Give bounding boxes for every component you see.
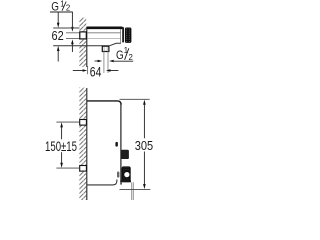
valve body right end ring <box>122 27 124 42</box>
knob unit foot <box>120 180 131 182</box>
inlet pipe lower callout arrow (up arrow) <box>71 39 74 52</box>
knob knurl texture <box>124 167 128 181</box>
control paddle block <box>121 150 129 159</box>
dimension 305: top extension line <box>120 98 150 100</box>
extension line (inlet axis) <box>53 27 79 29</box>
extension line union 2 <box>56 167 79 169</box>
fitting size arrow (right) + label leader <box>109 60 133 63</box>
dimension 62: bottom arrow <box>57 46 60 62</box>
wall hatch (bottom view) <box>79 88 86 201</box>
extension line union 1 <box>56 121 79 123</box>
dimension 150±15 line + arrows <box>60 122 63 168</box>
knurled knob (side view) <box>125 28 131 43</box>
fitting size arrows (left) <box>95 60 103 63</box>
knob unit foot tick <box>120 182 122 184</box>
body right edge <box>120 104 122 182</box>
union box 2 (bottom supply) <box>80 166 87 172</box>
dimension 64: right arrow <box>106 69 119 72</box>
dimension 305: bottom extension line <box>120 188 151 190</box>
body top edge (thick) <box>87 101 121 105</box>
union box 1 (top supply) <box>80 120 87 126</box>
brand tick on body edge <box>115 142 118 147</box>
supply pipe behind wall <box>66 33 80 39</box>
outlet fitting (hex nut) <box>102 46 109 51</box>
outlet pipe <box>104 52 108 74</box>
wall face line (bottom view) <box>86 88 88 200</box>
dimension 64: left arrow <box>73 69 87 72</box>
wall face line (top view) <box>86 27 88 67</box>
svg-text:305: 305 <box>135 138 153 153</box>
svg-text:62: 62 <box>52 28 64 43</box>
hex nut facet lines <box>104 47 107 51</box>
valve body top bar (thick) <box>87 27 123 30</box>
svg-text:G: G <box>116 48 124 62</box>
label G 1/2 (shower outlet) <box>116 46 133 62</box>
dimension 62: top arrow <box>57 13 60 28</box>
body bottom edge <box>87 180 117 185</box>
valve body internal lines (union stub) <box>87 32 121 34</box>
svg-text:150±15: 150±15 <box>45 138 77 154</box>
svg-text:64: 64 <box>90 64 102 80</box>
knob white circle <box>124 172 129 177</box>
union elbow box behind wall <box>80 32 87 39</box>
valve body outline bottom chamfer <box>110 43 121 45</box>
underline of G1/2 label <box>50 11 73 13</box>
knob left tab <box>117 172 119 178</box>
fraction slash of G1/2 <box>62 2 66 11</box>
dimension 305 line + arrows <box>143 100 146 190</box>
wall hatch (top view) <box>79 18 86 68</box>
svg-text:2: 2 <box>66 4 70 13</box>
lower knob unit <box>122 166 131 182</box>
knob knurl highlights <box>127 28 129 42</box>
label G 1/2 (inlet) <box>51 0 70 13</box>
shower hose lines <box>132 182 134 200</box>
fraction slash of second G1/2 <box>125 48 129 60</box>
svg-text:G: G <box>51 0 59 13</box>
extension line (outlet axis) / body bottom <box>53 45 109 47</box>
svg-text:2: 2 <box>129 53 133 62</box>
valve body end cap separation line <box>119 29 121 43</box>
leader arrow from G1/2 to inlet pipe (down arrow) <box>71 12 74 32</box>
dimension 64: wall extension line <box>87 66 89 74</box>
